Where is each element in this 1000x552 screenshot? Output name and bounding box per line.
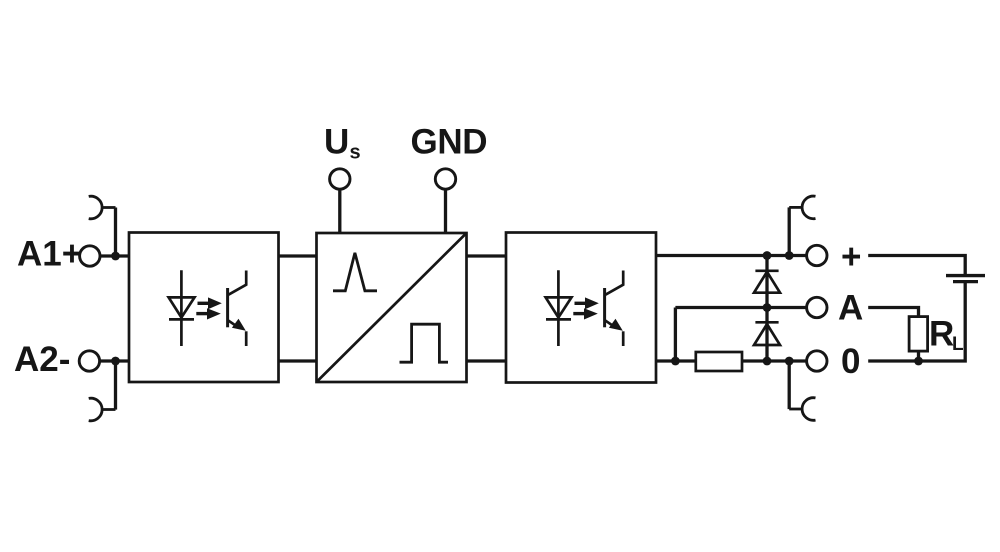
terminal circle + — [807, 245, 827, 265]
junction dot diode bottom — [763, 357, 772, 366]
square pulse symbol — [400, 324, 449, 362]
hook connector bottom-left — [89, 398, 116, 421]
wire battery to 0 — [868, 283, 965, 361]
junction dot diode mid — [763, 303, 772, 312]
optocoupler symbol U3 — [546, 270, 624, 346]
resistor R1 in 0 line — [696, 352, 742, 371]
wire box1-box2 top — [279, 254, 317, 257]
wire hook BR vertical — [788, 361, 791, 409]
hook connector top-right — [789, 196, 815, 219]
wire A to RL — [868, 308, 918, 317]
junction dot hook BR — [785, 357, 794, 366]
terminal circle Us — [330, 169, 350, 189]
terminal circle A2- — [79, 351, 99, 371]
wire hook TL vertical — [114, 208, 117, 257]
wire A1 circle to box1 — [101, 254, 129, 257]
wire GND stub — [444, 190, 447, 234]
wire A2 circle to box1 — [100, 359, 129, 362]
wire A branch vertical — [674, 308, 677, 362]
wire box1-box2 bottom — [279, 359, 317, 362]
box U1 input optocoupler — [129, 233, 279, 383]
diode V1 — [754, 271, 780, 293]
svg-text:U: U — [324, 123, 349, 162]
terminal circle GND — [435, 169, 455, 189]
terminal circle A1+ — [80, 246, 100, 266]
junction dot A branch bottom — [671, 357, 680, 366]
load resistor RL — [909, 317, 928, 352]
box U3 output optocoupler — [506, 233, 656, 383]
converter diagonal — [317, 233, 467, 382]
wire A branch horizontal — [675, 306, 806, 309]
wire box3 to + terminal — [656, 254, 806, 257]
svg-text:A1+: A1+ — [17, 235, 82, 274]
wire diode chain vertical — [765, 256, 768, 362]
diode V2 — [754, 322, 780, 345]
wire box2-box3 bottom — [467, 359, 507, 362]
junction dot RL bottom — [914, 357, 923, 366]
hook connector bottom-right — [789, 398, 815, 421]
svg-text:L: L — [952, 334, 964, 355]
hook connector top-left — [89, 196, 116, 219]
svg-text:A: A — [838, 289, 863, 328]
junction dot hook TR — [785, 251, 794, 260]
terminal circle A — [807, 297, 827, 317]
wire + to battery — [868, 256, 965, 275]
svg-text:R: R — [929, 315, 954, 354]
svg-text:GND: GND — [411, 123, 488, 162]
spike pulse symbol — [333, 253, 377, 291]
junction dot A2 — [111, 357, 120, 366]
svg-text:A2-: A2- — [14, 340, 70, 379]
wire box2-box3 top — [467, 254, 507, 257]
svg-text:+: + — [841, 238, 861, 277]
svg-text:0: 0 — [841, 342, 860, 381]
battery B1 long bar — [946, 274, 985, 277]
wire hook TR vertical — [788, 207, 791, 255]
junction dot A1 — [111, 252, 120, 261]
wire hook BL vertical — [114, 361, 117, 410]
junction dot diode top — [763, 251, 772, 260]
terminal circle 0 — [807, 351, 827, 371]
svg-text:s: s — [350, 142, 361, 164]
wire box3 to 0 terminal — [656, 359, 806, 362]
box U2 pulse converter — [317, 233, 467, 382]
optocoupler symbol U1 — [169, 270, 247, 346]
wire RL to 0 — [917, 351, 920, 361]
wire Us stub — [338, 190, 341, 234]
battery B1 short bar — [953, 280, 978, 283]
